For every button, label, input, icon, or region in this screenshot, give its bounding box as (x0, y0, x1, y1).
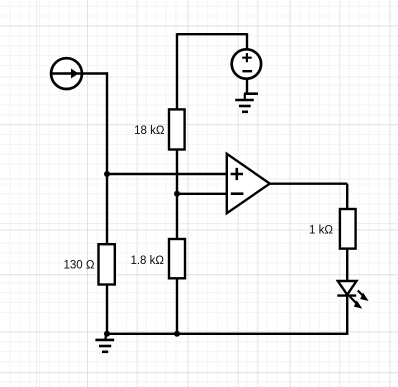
svg-text:18 kΩ: 18 kΩ (134, 125, 165, 137)
resistor R1 18 kohm (169, 109, 185, 149)
resistor R3 130 ohm (99, 244, 115, 284)
LED D1 (337, 281, 367, 307)
wire: output down to 1k (346, 184, 348, 209)
wire: top rail from 18k to voltage source (177, 33, 247, 35)
svg-text:1 kΩ: 1 kΩ (309, 225, 333, 237)
wire: voltage source bottom lead (246, 80, 248, 94)
wire: bottom ground rail (107, 333, 347, 335)
ground GND2 (below voltage source) (235, 94, 258, 112)
svg-text:130 Ω: 130 Ω (64, 259, 95, 271)
node B junction dot (174, 191, 180, 197)
op-amp U1 (227, 154, 270, 213)
current source I1 (50, 58, 83, 89)
wire: LED to ground rail (346, 296, 348, 335)
wire: node B to op-amp - input (177, 193, 227, 195)
wire: node A vertical (source down to 130 ohm) (106, 72, 108, 244)
wire: 130 ohm to ground rail (106, 285, 108, 334)
svg-text:1.8 kΩ: 1.8 kΩ (130, 255, 164, 267)
wire: 1k to LED (346, 249, 348, 281)
wire: top rail down to 18k resistor (176, 33, 178, 109)
junction dot at ground rail (174, 331, 180, 337)
voltage source V1 (232, 49, 261, 78)
wire: current source to node A (top horizontal) (83, 72, 108, 74)
ground GND1 (bottom left) (95, 331, 114, 352)
node A junction dot (104, 171, 110, 177)
wire: op-amp output (270, 182, 347, 184)
resistor R2 1.8 kohm (169, 239, 185, 278)
wire: voltage source top lead (246, 33, 248, 48)
resistor R4 1 kohm (340, 209, 356, 249)
wire: 18k to 1.8k vertical (node B) (176, 150, 178, 240)
wire: node A to op-amp + input (107, 173, 227, 175)
wire: 1.8k to ground rail (176, 278, 178, 334)
